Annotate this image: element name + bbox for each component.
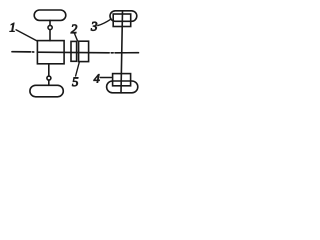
- label 4: [94, 74, 100, 82]
- label 3: [91, 22, 97, 31]
- leader line for label 5: [76, 63, 80, 77]
- label 1: [10, 23, 15, 32]
- joint circle top: [48, 25, 52, 29]
- wire centerline dot right: [111, 52, 113, 54]
- leader line for label 3: [98, 19, 111, 25]
- wire centerline right dash: [115, 52, 139, 54]
- clutch box 2: [71, 41, 77, 61]
- wheel rear-top rim rectangle: [113, 14, 131, 27]
- engine box 1: [37, 41, 64, 64]
- leader line for label 2: [75, 34, 78, 41]
- wheel rear-bottom tyre (stadium): [107, 81, 138, 93]
- label 2: [71, 25, 77, 34]
- wheel front-left (top-left stadium): [34, 10, 66, 20]
- gearbox box 5: [79, 41, 89, 61]
- wire rear axle vertical: [121, 11, 123, 93]
- wheel rear-top tyre (stadium): [110, 11, 137, 21]
- wheel rear-bottom rim rectangle: [113, 74, 131, 86]
- wheel front-right (bottom-left stadium): [30, 85, 63, 97]
- wire centerline dot left: [32, 51, 33, 53]
- joint circle bottom: [47, 76, 51, 80]
- label 5: [72, 77, 78, 86]
- wire front axle upper shaft: [49, 20, 51, 40]
- wire centerline main segment through boxes: [38, 51, 110, 54]
- wire front axle lower shaft: [48, 64, 50, 86]
- leader line for label 4: [100, 77, 111, 79]
- leader line for label 1: [16, 30, 37, 41]
- wire longitudinal centerline left dash: [12, 51, 31, 53]
